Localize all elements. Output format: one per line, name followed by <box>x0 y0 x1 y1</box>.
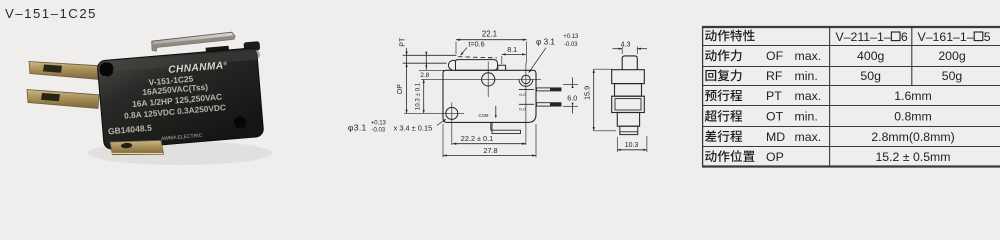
svg-text:6.0: 6.0 <box>567 93 577 102</box>
svg-text:1.6mm: 1.6mm <box>894 89 932 103</box>
svg-text:2.8mm(0.8mm): 2.8mm(0.8mm) <box>871 130 954 144</box>
front view: COM terminal L-shape below body <box>491 122 521 133</box>
front view: NC slot and label <box>519 89 534 91</box>
switch photo: top-right corner bump <box>244 41 261 51</box>
svg-text:x 3.4 ± 0.15: x 3.4 ± 0.15 <box>394 124 433 133</box>
side view: plunger cap <box>622 56 637 70</box>
front view: hinge lever (rounded bar) <box>456 60 498 71</box>
svg-text:PT: PT <box>766 89 782 103</box>
table header: 动作特性 <box>705 30 755 42</box>
side view: top body block <box>612 70 645 84</box>
table row: 动作位置 OP <box>705 150 755 162</box>
front view: terminal blade NC (top right) <box>537 88 562 91</box>
dimension 22.2±0.1 <box>453 143 526 145</box>
front view: horizontal centerline through top holes <box>421 78 541 80</box>
dimension 10.3 (side bottom) <box>616 137 618 152</box>
front view: plunger button <box>498 65 506 70</box>
table header: V-161-1-□5 <box>918 30 991 44</box>
dimension 15.9 <box>593 69 595 131</box>
switch photo: drop shadow <box>88 141 272 165</box>
svg-text:min.: min. <box>795 110 818 124</box>
svg-text:50g: 50g <box>860 69 881 83</box>
svg-text:OF: OF <box>766 49 784 63</box>
front view: NO slot and label <box>519 103 534 105</box>
table row: 预行程 PT max <box>705 89 742 101</box>
front view: lever pivot curl <box>448 60 455 69</box>
svg-text:8.1: 8.1 <box>507 45 517 54</box>
side view: second block (narrower) <box>615 84 642 97</box>
svg-text:min.: min. <box>795 69 818 83</box>
svg-text:V–151–1C25: V–151–1C25 <box>5 6 97 21</box>
svg-text:RF: RF <box>766 69 783 83</box>
svg-text:2.8: 2.8 <box>420 72 429 79</box>
svg-text:15.9: 15.9 <box>582 86 591 100</box>
side view: bottom foot block <box>620 126 638 134</box>
dimension 10.3±0.1 line <box>423 79 425 113</box>
front view: hole top-right (mounting) <box>522 75 531 84</box>
dimension 22.1 line <box>456 39 527 41</box>
switch photo: mounting hole bottom-right <box>234 116 247 129</box>
front view: horizontal centerline bottom hole <box>404 112 464 114</box>
front view: terminal blade NO (bottom right) <box>537 103 562 106</box>
dimension 4.3 <box>621 47 623 55</box>
svg-text:27.8: 27.8 <box>483 146 497 155</box>
side view: fourth block <box>617 113 639 127</box>
svg-text:max.: max. <box>795 89 822 103</box>
switch photo: terminal blade 3 (bottom, angled) <box>110 140 164 154</box>
svg-text:+0.13: +0.13 <box>563 34 579 40</box>
svg-text:COM: COM <box>478 113 488 118</box>
svg-text:400g: 400g <box>857 49 885 63</box>
switch photo: mounting hole top-left <box>99 62 114 77</box>
svg-text:max.: max. <box>795 49 822 63</box>
dimension PT/OP vertical line <box>406 48 408 114</box>
front view: body outline <box>443 70 536 122</box>
svg-text:φ 3.1: φ 3.1 <box>536 37 555 46</box>
svg-text:V–161–1–: V–161–1– <box>918 30 974 44</box>
table header: V-211-1-□6 <box>836 30 908 44</box>
table row: 回复力 RF min <box>705 69 741 81</box>
switch photo: terminal blade 2 (middle left) <box>27 90 99 109</box>
dimension 8.1 <box>502 53 526 55</box>
table: vertical rules <box>702 27 704 167</box>
svg-text:OP: OP <box>766 150 784 164</box>
front view: lever free position dashed line <box>458 57 497 58</box>
front view: hole bottom-left (mounting) <box>446 107 458 119</box>
svg-text:+0.13: +0.13 <box>371 120 387 126</box>
svg-text:5: 5 <box>984 30 991 44</box>
svg-text:N.C: N.C <box>519 93 526 97</box>
svg-text:22.2 ± 0.1: 22.2 ± 0.1 <box>461 134 493 143</box>
body top extension line <box>419 69 444 71</box>
svg-text:50g: 50g <box>942 69 963 83</box>
svg-text:6: 6 <box>901 30 908 44</box>
svg-text:N.O: N.O <box>519 107 526 111</box>
svg-text:MD: MD <box>766 130 785 144</box>
svg-text:10.3 ± 0.1: 10.3 ± 0.1 <box>415 82 422 110</box>
svg-text:10.3: 10.3 <box>625 142 639 149</box>
dimension 6.0 between blades <box>563 83 578 85</box>
svg-text:max.: max. <box>795 130 822 144</box>
side view: third block with inner flange <box>612 96 645 112</box>
svg-text:4.3: 4.3 <box>621 41 631 48</box>
svg-text:-0.03: -0.03 <box>371 128 385 134</box>
svg-text:200g: 200g <box>938 49 966 63</box>
switch photo: hinge lever (metal arm) <box>152 32 235 51</box>
svg-text:PT: PT <box>399 37 406 47</box>
switch photo: plunger block under lever <box>206 46 230 60</box>
dimension 2.8 outer arrows line <box>425 52 427 71</box>
switch photo: terminal blade 1 (top left) <box>29 62 100 80</box>
table row: 超行程 OT min <box>705 110 742 122</box>
table row: 差行程 MD max <box>705 130 742 142</box>
svg-text:22.1: 22.1 <box>482 30 497 39</box>
svg-text:OP: OP <box>397 84 404 94</box>
table: horizontal rules <box>702 26 1000 28</box>
svg-text:φ3.1: φ3.1 <box>348 123 367 133</box>
svg-text:t=0.6: t=0.6 <box>468 39 484 48</box>
svg-text:OT: OT <box>766 110 784 124</box>
svg-text:15.2 ± 0.5mm: 15.2 ± 0.5mm <box>875 150 950 164</box>
dimension PT: datum lines <box>403 54 457 56</box>
table row: 动作力 OF max <box>705 50 741 62</box>
svg-text:-0.03: -0.03 <box>564 42 578 48</box>
dimension 27.8 <box>443 155 536 157</box>
front view: hole top-center <box>482 73 495 86</box>
svg-text:V–211–1–: V–211–1– <box>836 30 891 44</box>
switch photo: black body <box>97 47 267 149</box>
svg-text:0.8mm: 0.8mm <box>894 110 932 124</box>
